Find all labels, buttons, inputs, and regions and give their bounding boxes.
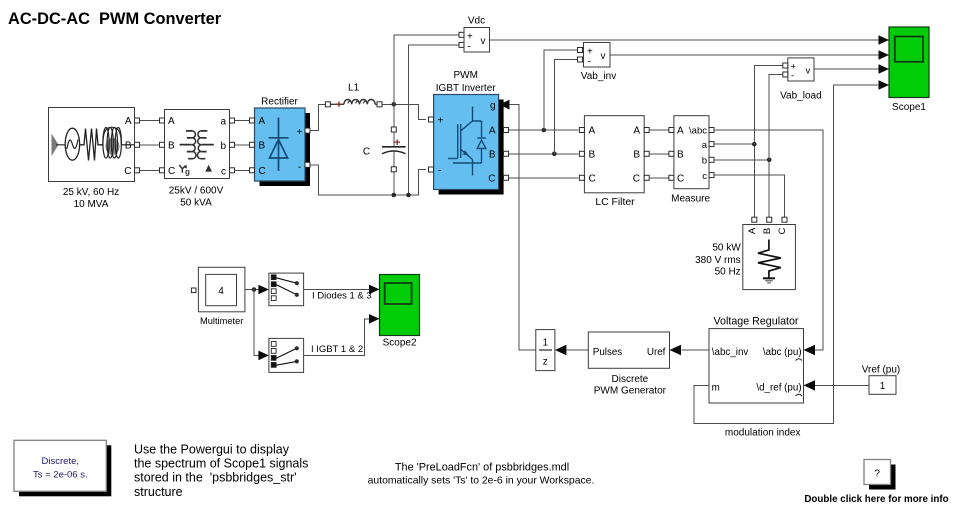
svg-text:+: +	[438, 115, 444, 126]
svg-text:B: B	[168, 140, 175, 151]
svg-text:Ts = 2e-06 s.: Ts = 2e-06 s.	[33, 469, 88, 480]
svg-text:b: b	[702, 156, 707, 167]
svg-text:PWM: PWM	[453, 70, 477, 81]
label: Rectifier	[261, 96, 298, 107]
rectifier block (universal bridge, diodes)	[250, 108, 311, 186]
input arrow 1/z	[555, 345, 567, 355]
label: C	[363, 146, 370, 157]
label: Vdc	[468, 16, 485, 27]
wire Voltage Regulator Vabc_inv to Uref	[682, 349, 710, 351]
svg-text:B: B	[633, 149, 640, 160]
Measure block (three-phase V-I measurement)	[669, 116, 714, 189]
svg-text:m: m	[712, 382, 720, 393]
voltage measurement Vdc	[459, 28, 490, 53]
Discrete PWM Generator block	[588, 332, 669, 368]
svg-text:+: +	[297, 127, 303, 138]
wire Vref constant to Vd_ref (pu)	[815, 384, 869, 386]
junction node b / Vab_load -	[767, 158, 772, 163]
svg-text:4: 4	[218, 286, 224, 297]
svg-text:c: c	[221, 167, 226, 178]
svg-text:b: b	[220, 141, 226, 152]
svg-text:C: C	[488, 174, 495, 185]
svg-text:1: 1	[543, 338, 549, 349]
svg-text:L1: L1	[348, 83, 360, 94]
svg-text:A: A	[125, 116, 132, 127]
wire m output (modulation index) to Scope1 input 4	[694, 85, 879, 424]
svg-text:A: A	[747, 227, 758, 234]
wire 1/z output to inverter g	[510, 105, 536, 350]
svg-text:Scope1: Scope1	[892, 102, 926, 113]
junction node: Vdc - sense on rail	[406, 193, 411, 198]
svg-text:C: C	[589, 173, 596, 184]
svg-text:v: v	[601, 51, 606, 62]
svg-text:I Diodes 1 & 3: I Diodes 1 & 3	[312, 291, 372, 302]
Scope1	[889, 27, 929, 98]
wire LC filter B to Measure B	[649, 153, 669, 155]
svg-text:A: A	[589, 126, 596, 137]
junction node: DC+ / capacitor / Vdc	[392, 102, 397, 107]
junction node phase B to Vab_inv	[552, 152, 557, 157]
wire phase A junction to Vab_inv +	[544, 50, 578, 130]
wire Measure c to load phase C	[714, 175, 785, 217]
svg-text:B: B	[125, 140, 132, 151]
wire transformer c to rectifier C	[235, 169, 250, 171]
wire LC filter C to Measure C	[649, 177, 669, 179]
svg-text:A: A	[259, 116, 266, 127]
svg-text:g: g	[490, 101, 496, 112]
inductor L1	[325, 99, 382, 111]
svg-text:PWM Generator: PWM Generator	[594, 386, 667, 397]
label: Scope2	[383, 338, 417, 349]
junction node: capacitor bottom on rail	[392, 193, 397, 198]
label: 50 kW 380 V rms 50 Hz	[695, 243, 741, 278]
svg-text:LC Filter: LC Filter	[595, 197, 635, 208]
svg-text:a: a	[220, 117, 226, 128]
svg-text:IGBT Inverter: IGBT Inverter	[436, 83, 497, 94]
label: 25 kV, 60 Hz / 10 MVA	[63, 187, 119, 210]
svg-text:C: C	[777, 227, 788, 234]
wire Vab_inv output to Scope1 input 2	[610, 54, 879, 56]
wire Measure b to load phase B	[714, 160, 769, 217]
wire PWM generator Pulses to 1/z	[567, 349, 589, 351]
input arrow at inverter gate g	[500, 100, 510, 110]
wire b junction up to Vab_load -	[769, 75, 783, 160]
svg-text:-: -	[588, 57, 591, 68]
wire Vab_load output to Scope1 input 3	[814, 68, 879, 70]
svg-text:?: ?	[874, 469, 880, 480]
three-phase source block (25 kV, 60 Hz, 10 MVA)	[49, 108, 140, 182]
svg-text:Uref: Uref	[647, 347, 666, 358]
label: PWM IGBT Inverter	[436, 70, 497, 94]
wire multimeter branch to selector 2	[254, 290, 259, 356]
input arrow selector 1	[258, 285, 269, 295]
label: Voltage Regulator	[714, 316, 799, 328]
Voltage Regulator block	[709, 329, 804, 403]
unit delay block 1/z	[536, 330, 555, 371]
svg-text:A: A	[633, 126, 640, 137]
label: Discrete PWM Generator	[594, 374, 667, 397]
signal selector block 2 (I IGBT 1 & 2)	[269, 338, 304, 372]
svg-text:Scope2: Scope2	[383, 338, 417, 349]
svg-text:a: a	[702, 140, 708, 151]
wire source C to transformer C	[140, 169, 160, 171]
annotation: Powergui note	[134, 443, 308, 499]
wire inverter B to LC filter B	[509, 153, 579, 155]
wire selector 2 to Scope2 input 2	[304, 319, 369, 356]
svg-text:\abc (pu): \abc (pu)	[763, 347, 802, 358]
svg-text:25 kV, 60 Hz: 25 kV, 60 Hz	[63, 187, 119, 198]
wire L1 to inverter + (DC positive rail)	[382, 104, 426, 119]
svg-text:10 MVA: 10 MVA	[74, 199, 109, 210]
svg-text:1: 1	[880, 381, 886, 392]
svg-text:the spectrum of Scope1 signals: the spectrum of Scope1 signals	[134, 457, 308, 471]
svg-text:50 Hz: 50 Hz	[715, 267, 741, 278]
voltage measurement Vab_inv	[578, 43, 611, 68]
input arrow Voltage Regulator Vd_ref (pu)	[804, 380, 816, 390]
svg-text:Measure: Measure	[671, 194, 710, 205]
wire Vdc output to Scope1 input 1	[490, 39, 879, 41]
svg-text:AC-DC-AC PWM Converter: AC-DC-AC PWM Converter	[8, 10, 222, 28]
svg-text:\abc: \abc	[689, 126, 707, 137]
label: Vref (pu)	[862, 364, 901, 375]
svg-text:B: B	[259, 140, 266, 151]
wire selector 1 to Scope2 input 1	[304, 288, 369, 290]
label: Multimeter	[200, 316, 243, 326]
svg-text:g: g	[185, 168, 190, 177]
svg-text:A: A	[168, 116, 175, 127]
svg-text:Pulses: Pulses	[593, 347, 623, 358]
wire inverter A to LC filter A	[509, 129, 579, 131]
svg-text:B: B	[677, 149, 684, 160]
wire a junction up to Vab_load +	[754, 66, 783, 145]
svg-text:50 kVA: 50 kVA	[180, 198, 212, 209]
svg-text:B: B	[762, 228, 773, 234]
label: 25kV / 600V 50 kVA	[169, 185, 224, 208]
svg-text:C: C	[633, 173, 640, 184]
input arrow Scope2 in1	[369, 285, 380, 295]
svg-text:Vref (pu): Vref (pu)	[862, 364, 901, 375]
svg-text:C: C	[363, 146, 370, 157]
wire Measure a to load phase A	[714, 144, 754, 217]
capacitor C	[382, 104, 406, 195]
PWM IGBT Inverter block U1	[429, 95, 509, 195]
help block ?	[864, 460, 896, 490]
wire LC filter A to Measure A	[649, 129, 669, 131]
label: I IGBT 1 & 2	[311, 344, 363, 355]
wire inverter C to LC filter C	[509, 177, 579, 179]
powergui block: Discrete, Ts = 2e-06 s.	[14, 440, 111, 496]
svg-text:-: -	[298, 162, 301, 173]
wire source B to transformer B	[140, 144, 160, 146]
svg-text:C: C	[677, 173, 684, 184]
input arrow Scope1 in3	[879, 64, 890, 74]
svg-text:C: C	[259, 166, 266, 177]
svg-text:-: -	[791, 71, 794, 82]
voltage measurement Vab_load	[783, 58, 814, 82]
svg-text:v: v	[806, 66, 811, 77]
svg-text:stored in the 'psbbridges_str: stored in the 'psbbridges_str'	[134, 471, 297, 485]
wire phase B junction to Vab_inv -	[554, 60, 577, 154]
svg-text:Vab_inv: Vab_inv	[581, 71, 616, 82]
wire transformer a to rectifier A	[235, 120, 250, 122]
svg-text:-: -	[468, 42, 471, 53]
wire Measure Vabc to Voltage Regulator Vabc (pu)	[714, 130, 823, 350]
svg-text:A: A	[677, 126, 684, 137]
svg-text:50 kW: 50 kW	[712, 243, 741, 254]
svg-text:Voltage Regulator: Voltage Regulator	[714, 316, 799, 328]
label: Scope1	[892, 102, 926, 113]
svg-text:\d_ref (pu): \d_ref (pu)	[756, 382, 801, 393]
transformer block (25kV / 600V, 50 kVA)	[160, 110, 235, 179]
svg-text:+: +	[336, 99, 342, 111]
wire transformer b to rectifier B	[235, 144, 250, 146]
input arrow Scope1 in2	[879, 50, 890, 60]
svg-text:structure: structure	[134, 485, 183, 499]
svg-text:Rectifier: Rectifier	[261, 96, 298, 107]
junction node a / Vab_load +	[752, 142, 757, 147]
annotation: Double click here for more info	[804, 494, 948, 505]
svg-text:v: v	[481, 36, 486, 47]
svg-text:C: C	[124, 166, 131, 177]
svg-text:Vab_load: Vab_load	[780, 91, 822, 102]
svg-text:C: C	[168, 166, 175, 177]
signal selector block 1 (I Diodes 1 & 3)	[269, 273, 304, 306]
label: I Diodes 1 & 3	[312, 291, 372, 302]
label: Vab_load	[780, 91, 822, 102]
wire junction up to Vdc +	[394, 35, 459, 105]
label: LC Filter	[595, 197, 635, 208]
svg-text:c: c	[702, 171, 707, 182]
junction node phase A to Vab_inv	[542, 128, 547, 133]
wire multimeter output	[245, 289, 259, 291]
svg-text:B: B	[489, 150, 496, 161]
svg-text:B: B	[589, 149, 596, 160]
svg-text:25kV / 600V: 25kV / 600V	[169, 185, 224, 196]
svg-text:Discrete: Discrete	[612, 374, 649, 385]
constant block Vref (pu) = 1	[869, 376, 896, 395]
input arrow Scope1 in4	[879, 80, 890, 90]
input arrow Scope1 in1	[879, 35, 890, 45]
svg-text:I IGBT 1 & 2: I IGBT 1 & 2	[311, 344, 363, 355]
input arrow selector 2	[258, 351, 269, 361]
svg-text:380 V rms: 380 V rms	[695, 255, 741, 266]
LC Filter block	[579, 116, 649, 193]
junction node multimeter branch	[252, 287, 257, 292]
input arrow Scope2 in2	[369, 314, 380, 324]
wire DC negative rail up to Vdc -	[409, 45, 460, 195]
svg-text:z: z	[543, 357, 548, 368]
label: Measure	[671, 194, 710, 205]
svg-text:Discrete,: Discrete,	[42, 456, 79, 467]
svg-text:The 'PreLoadFcn' of psbbridges: The 'PreLoadFcn' of psbbridges.mdl	[395, 462, 569, 474]
title: AC-DC-AC PWM Converter	[8, 10, 222, 28]
svg-text:Multimeter: Multimeter	[200, 316, 243, 326]
wire rectifier + to inductor L1	[310, 104, 325, 130]
svg-text:A: A	[489, 126, 496, 137]
svg-text:Vdc: Vdc	[468, 16, 485, 27]
label: Vab_inv	[581, 71, 616, 82]
label: L1	[348, 83, 360, 94]
annotation: PreLoadFcn note	[368, 462, 595, 487]
label: modulation index	[725, 427, 801, 438]
svg-text:automatically sets 'Ts' to 2e-: automatically sets 'Ts' to 2e-6 in your …	[368, 476, 595, 487]
svg-text:modulation index: modulation index	[725, 427, 801, 438]
input arrow Voltage Regulator Vabc (pu)	[804, 345, 816, 355]
input arrow PWM generator Uref	[670, 345, 682, 355]
svg-text:\abc_inv: \abc_inv	[712, 347, 749, 358]
Scope2	[380, 275, 420, 336]
svg-text:Double click here for more inf: Double click here for more info	[804, 494, 948, 505]
Multimeter block	[191, 267, 245, 312]
wire rectifier - to DC bottom rail to inverter -	[310, 165, 426, 195]
wire source A to transformer A	[140, 120, 160, 122]
svg-text:Use the Powergui to display: Use the Powergui to display	[134, 443, 290, 457]
three-phase load block (50 kW, 380 V rms, 50 Hz)	[743, 217, 796, 289]
svg-text:-: -	[438, 165, 441, 176]
